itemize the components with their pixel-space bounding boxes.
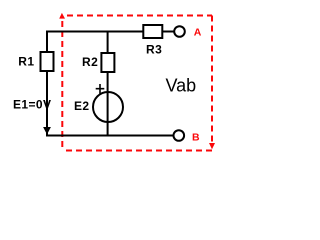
loop contour dashed left edge: [61, 18, 63, 151]
svg-text:A: A: [194, 27, 202, 39]
svg-text:R1: R1: [18, 55, 34, 69]
loop contour dashed right edge: [211, 16, 213, 143]
wire: top horizontal: [46, 31, 143, 33]
source E2 plus sign: [96, 84, 105, 94]
svg-text:R2: R2: [82, 55, 98, 69]
wire: left branch vertical: [46, 31, 48, 137]
terminal B: [174, 130, 185, 141]
source E2 circle: [93, 92, 123, 122]
resistor R1: [41, 52, 54, 71]
loop arrow down (bottom-right): [209, 143, 215, 149]
terminal A: [174, 26, 185, 37]
wire: R3 to terminal A: [162, 31, 174, 33]
svg-text:E2: E2: [74, 99, 89, 113]
svg-text:R3: R3: [146, 43, 162, 57]
wire: middle branch vertical: [107, 31, 109, 137]
wire: bottom horizontal: [46, 135, 174, 137]
loop arrow up (top-left): [59, 13, 65, 19]
loop contour dashed top edge: [67, 15, 212, 17]
resistor R2: [101, 53, 114, 72]
svg-text:Vab: Vab: [166, 76, 197, 96]
svg-text:E1=0V: E1=0V: [13, 98, 51, 112]
resistor R3: [143, 25, 162, 38]
loop contour dashed bottom edge: [62, 150, 212, 152]
svg-text:B: B: [192, 131, 200, 143]
arrow E1 direction (down): [43, 127, 51, 135]
